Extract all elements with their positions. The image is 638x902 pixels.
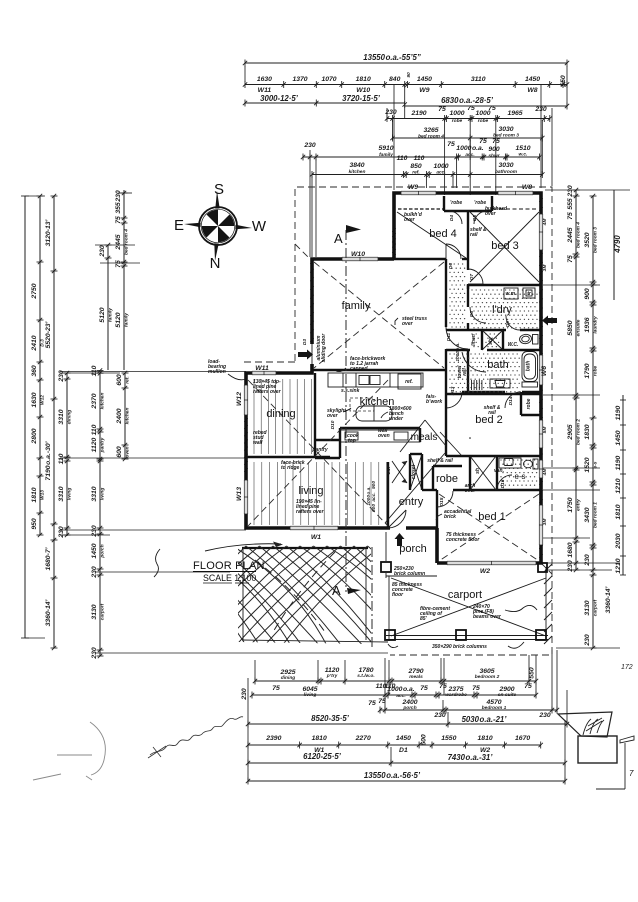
window labels near plan bbox=[236, 184, 548, 575]
black arrow marker porch bbox=[395, 533, 405, 546]
svg-text:bed room 2: bed room 2 bbox=[576, 419, 582, 445]
robe bed2 bbox=[526, 398, 532, 409]
svg-text:ref.: ref. bbox=[405, 379, 413, 385]
ceiling diagonals bed3 bbox=[470, 212, 539, 282]
svg-text:bath: bath bbox=[526, 361, 532, 372]
svg-text:S: S bbox=[214, 181, 224, 198]
svg-text:under: under bbox=[389, 416, 404, 422]
svg-text:1830: 1830 bbox=[584, 424, 591, 439]
door arc es bbox=[497, 475, 512, 490]
door arcs hall bbox=[446, 327, 468, 362]
robe bed1 bbox=[427, 458, 476, 494]
svg-text:closet: closet bbox=[411, 464, 417, 479]
roof hip dashes bbox=[295, 244, 552, 574]
robe cells bed4 bed3 bbox=[449, 200, 487, 224]
svg-text:13550 o.a.-56·5’: 13550 o.a.-56·5’ bbox=[364, 771, 421, 780]
svg-text:E: E bbox=[174, 217, 184, 234]
door arc bed3 D2 bbox=[468, 269, 483, 284]
corner sketch lines bbox=[596, 736, 634, 789]
svg-text:living: living bbox=[67, 488, 73, 501]
svg-text:shelf & rail: shelf & rail bbox=[427, 458, 453, 464]
svg-text:D13: D13 bbox=[450, 386, 456, 395]
dim top overall 13550 bbox=[243, 53, 569, 67]
svg-text:kitchen: kitchen bbox=[100, 393, 106, 410]
svg-text:3130: 3130 bbox=[91, 604, 98, 619]
note skylight over bbox=[327, 408, 351, 419]
corner sketch funnel bbox=[558, 712, 617, 763]
svg-text:75: 75 bbox=[467, 105, 475, 112]
svg-text:230: 230 bbox=[241, 688, 248, 701]
washing machine bbox=[504, 288, 518, 299]
svg-text:75: 75 bbox=[479, 138, 487, 145]
svg-text:1370: 1370 bbox=[292, 76, 307, 83]
kitchen sink note bbox=[341, 388, 360, 394]
door arc wc bbox=[505, 316, 520, 330]
svg-text:bed room 1: bed room 1 bbox=[593, 502, 599, 528]
svg-text:3360-14’: 3360-14’ bbox=[45, 599, 52, 626]
svg-text:3310: 3310 bbox=[58, 486, 65, 501]
shower es bbox=[470, 456, 496, 490]
svg-text:D3: D3 bbox=[302, 339, 308, 345]
dim left chain rooms bbox=[58, 370, 73, 539]
svg-text:1810: 1810 bbox=[312, 735, 327, 742]
svg-text:1520: 1520 bbox=[584, 457, 591, 472]
wall marker letters bbox=[542, 218, 548, 526]
svg-text:dining: dining bbox=[67, 410, 73, 424]
carport beams outline bbox=[385, 563, 548, 641]
svg-text:3310: 3310 bbox=[91, 486, 98, 501]
svg-text:W10: W10 bbox=[351, 251, 365, 258]
dim bottom rooms row bbox=[253, 667, 538, 690]
note aluminium sliding door bbox=[316, 333, 327, 363]
svg-text:85’: 85’ bbox=[420, 616, 428, 622]
wall exterior outline bbox=[246, 193, 541, 563]
note face-brickwork kitchen bbox=[336, 356, 386, 372]
dim left leader lines bbox=[60, 193, 388, 653]
svg-text:meals: meals bbox=[409, 674, 423, 680]
svg-text:shwr: shwr bbox=[488, 153, 500, 159]
svg-text:75: 75 bbox=[438, 106, 446, 113]
svg-text:3030: 3030 bbox=[498, 162, 513, 169]
svg-text:SCALE 1:100: SCALE 1:100 bbox=[203, 573, 256, 583]
svg-text:oven: oven bbox=[126, 446, 131, 457]
svg-text:A: A bbox=[332, 583, 341, 598]
svg-text:top: top bbox=[348, 438, 356, 444]
svg-text:1450: 1450 bbox=[525, 76, 540, 83]
svg-text:1450: 1450 bbox=[396, 735, 411, 742]
svg-text:7430 o.a.-31’: 7430 o.a.-31’ bbox=[448, 753, 494, 762]
svg-text:110: 110 bbox=[397, 155, 408, 162]
dim bottom subtotal row bbox=[246, 714, 569, 728]
svg-text:75: 75 bbox=[368, 700, 376, 707]
svg-text:230: 230 bbox=[115, 190, 122, 203]
svg-text:13550 o.a.-55’5”: 13550 o.a.-55’5” bbox=[363, 53, 421, 62]
svg-text:2800: 2800 bbox=[31, 428, 38, 444]
svg-text:oven: oven bbox=[378, 433, 390, 439]
svg-text:porch: porch bbox=[100, 544, 106, 558]
svg-text:3110: 3110 bbox=[471, 76, 486, 83]
svg-text:shr: shr bbox=[488, 336, 494, 345]
ceiling diagonals family bbox=[314, 262, 444, 368]
ceiling diagonals bed1 bbox=[439, 494, 539, 561]
dim left chain bedroom4 bbox=[115, 190, 130, 370]
paving leader arrow bbox=[154, 542, 283, 578]
black arrow marker right wall bbox=[542, 316, 557, 326]
svg-text:pantry: pantry bbox=[311, 447, 328, 453]
note shelf rail bed3 bbox=[470, 227, 487, 238]
svg-text:2370: 2370 bbox=[91, 393, 98, 409]
svg-text:4570: 4570 bbox=[485, 699, 501, 706]
window W9 bbox=[401, 191, 436, 195]
pencil marks bbox=[33, 722, 105, 780]
svg-text:porch: porch bbox=[402, 705, 416, 711]
floorboards dining bbox=[254, 379, 312, 454]
svg-text:5120: 5120 bbox=[115, 312, 122, 327]
room label bed 2 bbox=[475, 414, 503, 426]
svg-text:s.t./w.o.: s.t./w.o. bbox=[357, 673, 374, 679]
porch floor note bbox=[392, 582, 422, 598]
dim top bedrooms row bbox=[390, 126, 544, 142]
room label living bbox=[298, 485, 323, 497]
svg-text:1450: 1450 bbox=[615, 430, 622, 445]
note 1800x600 bench bbox=[381, 406, 412, 422]
svg-text:230: 230 bbox=[433, 712, 446, 719]
svg-text:b’work: b’work bbox=[426, 399, 442, 405]
svg-text:75: 75 bbox=[115, 216, 122, 224]
svg-text:entry: entry bbox=[576, 499, 582, 511]
svg-text:75: 75 bbox=[420, 685, 428, 692]
svg-text:1070: 1070 bbox=[321, 76, 336, 83]
svg-text:bedroom 2: bedroom 2 bbox=[475, 674, 500, 680]
svg-text:75: 75 bbox=[472, 685, 480, 692]
svg-text:5910: 5910 bbox=[378, 145, 393, 152]
compass rose bbox=[184, 191, 252, 261]
svg-text:230: 230 bbox=[538, 712, 551, 719]
dim top kitchen row bbox=[310, 155, 545, 178]
skylight dashed bbox=[350, 398, 374, 411]
es toilet bbox=[524, 459, 539, 469]
dim top family row bbox=[301, 138, 542, 161]
svg-text:W8: W8 bbox=[527, 87, 537, 94]
svg-text:bath: bath bbox=[487, 359, 508, 371]
room label porch bbox=[399, 543, 427, 555]
svg-text:550: 550 bbox=[560, 75, 567, 87]
svg-text:3265: 3265 bbox=[423, 127, 438, 134]
closet entry bbox=[410, 454, 422, 490]
svg-text:110: 110 bbox=[58, 453, 65, 464]
note rebated stud wall bbox=[253, 430, 268, 446]
svg-text:w.m.: w.m. bbox=[506, 291, 517, 297]
svg-text:to ridge: to ridge bbox=[281, 465, 300, 471]
note bulkhead bed4 bbox=[404, 212, 423, 223]
svg-text:D14: D14 bbox=[508, 396, 514, 405]
kitchen south bench bbox=[340, 430, 420, 442]
note face-brickwork meals bbox=[426, 394, 442, 405]
svg-text:355: 355 bbox=[115, 202, 122, 214]
door gap D3 bbox=[309, 344, 315, 364]
svg-text:8520-35·5’: 8520-35·5’ bbox=[311, 714, 350, 723]
svg-text:over: over bbox=[327, 413, 339, 419]
room label bed 1 bbox=[478, 511, 506, 523]
svg-text:D1: D1 bbox=[399, 747, 408, 754]
black arrow marker west D3 bbox=[298, 339, 313, 360]
floorboards living bbox=[254, 462, 387, 525]
room label family bbox=[342, 300, 371, 312]
svg-text:7190 o.a.-30’: 7190 o.a.-30’ bbox=[45, 441, 52, 480]
wc toilet bbox=[508, 334, 538, 348]
dim bottom left 230 bbox=[241, 688, 248, 701]
window W8 bbox=[498, 191, 533, 195]
svg-text:75: 75 bbox=[567, 212, 574, 220]
dim right chain rooms bbox=[567, 185, 582, 573]
svg-text:1810: 1810 bbox=[356, 76, 371, 83]
window right bed1 W3 bbox=[539, 505, 543, 545]
svg-text:W: W bbox=[252, 218, 267, 235]
window W10 bbox=[342, 257, 378, 261]
svg-text:mullion: mullion bbox=[208, 369, 226, 375]
shower bath bbox=[482, 330, 503, 350]
svg-text:bed room 4: bed room 4 bbox=[576, 222, 582, 248]
linen shelves bbox=[472, 380, 482, 390]
roof eave hatch right bbox=[544, 564, 552, 644]
dim left chain outer bbox=[31, 194, 46, 537]
window W1 bbox=[290, 526, 338, 530]
svg-text:dining: dining bbox=[281, 675, 295, 681]
svg-text:230: 230 bbox=[58, 526, 65, 539]
svg-text:concrete floor: concrete floor bbox=[446, 537, 480, 543]
svg-text:1630: 1630 bbox=[31, 392, 38, 407]
svg-text:kitchen: kitchen bbox=[349, 169, 366, 175]
dim left chain kitchen detail bbox=[116, 371, 131, 461]
svg-text:D17: D17 bbox=[386, 465, 392, 474]
svg-text:ensuite: ensuite bbox=[576, 319, 582, 336]
interior walls bbox=[246, 196, 541, 563]
window right bed3 bbox=[539, 214, 543, 250]
dim bottom subtotal row 2 bbox=[246, 752, 567, 767]
svg-text:1190: 1190 bbox=[615, 455, 622, 470]
door arc bed2 west bbox=[446, 392, 471, 439]
door D13 bbox=[450, 386, 456, 395]
svg-text:D8: D8 bbox=[469, 311, 475, 317]
door arc bed4 D6 bbox=[446, 244, 461, 269]
svg-text:capped: capped bbox=[350, 366, 368, 372]
dim bottom windows row bbox=[246, 734, 543, 754]
svg-text:110: 110 bbox=[91, 365, 98, 376]
robe door labels bbox=[449, 215, 478, 221]
svg-text:950: 950 bbox=[31, 518, 38, 530]
svg-text:2190: 2190 bbox=[410, 110, 426, 117]
svg-text:bed 3: bed 3 bbox=[491, 240, 519, 252]
svg-text:3360-14’: 3360-14’ bbox=[605, 586, 612, 613]
carport diagonals bbox=[391, 578, 546, 636]
svg-text:75: 75 bbox=[272, 685, 280, 692]
svg-text:75: 75 bbox=[439, 683, 447, 690]
ceiling diagonal bed4 bbox=[397, 212, 466, 258]
svg-text:D5: D5 bbox=[472, 215, 478, 221]
svg-text:110: 110 bbox=[91, 424, 98, 435]
signature bbox=[148, 717, 243, 758]
svg-text:rafters over: rafters over bbox=[296, 509, 325, 515]
dim right subtotal 3360 bbox=[605, 586, 612, 613]
svg-text:850: 850 bbox=[410, 163, 422, 170]
svg-text:110: 110 bbox=[414, 155, 425, 162]
dim right chain detail bbox=[584, 194, 599, 650]
door arc ldry bbox=[469, 307, 486, 323]
shelf rail notes bed2 bbox=[484, 405, 501, 416]
svg-text:350×290 brick columns: 350×290 brick columns bbox=[432, 644, 487, 650]
svg-text:550: 550 bbox=[529, 667, 536, 679]
svg-text:dining: dining bbox=[266, 408, 295, 420]
svg-text:230: 230 bbox=[91, 525, 98, 538]
svg-text:1000 o.a.: 1000 o.a. bbox=[366, 486, 372, 505]
svg-text:bed room 3: bed room 3 bbox=[593, 227, 599, 253]
svg-text:robe: robe bbox=[452, 118, 463, 124]
svg-text:ref.: ref. bbox=[125, 376, 131, 383]
kitchen island bench bbox=[356, 406, 392, 421]
svg-text:7: 7 bbox=[629, 769, 634, 778]
svg-text:beams over: beams over bbox=[473, 614, 502, 620]
svg-text:172: 172 bbox=[621, 664, 633, 671]
svg-text:p’try: p’try bbox=[326, 673, 338, 679]
svg-text:1510: 1510 bbox=[515, 145, 530, 152]
svg-text:family: family bbox=[124, 313, 130, 327]
svg-text:1000 o.a.: 1000 o.a. bbox=[387, 686, 415, 693]
svg-text:rail: rail bbox=[470, 232, 478, 238]
svg-text:1810: 1810 bbox=[478, 735, 493, 742]
room label bed 4 bbox=[429, 228, 457, 240]
svg-text:900: 900 bbox=[584, 288, 591, 300]
dim top leader lines bbox=[245, 66, 567, 257]
svg-text:2030: 2030 bbox=[615, 533, 622, 549]
window W13 bbox=[244, 480, 248, 514]
svg-text:3000-12·5’: 3000-12·5’ bbox=[260, 94, 299, 103]
dim top row windows bbox=[243, 72, 569, 94]
svg-text:2390: 2390 bbox=[265, 735, 281, 742]
svg-text:3840: 3840 bbox=[349, 162, 364, 169]
svg-text:robe: robe bbox=[593, 365, 599, 376]
sliding door D17 bbox=[386, 461, 407, 483]
svg-text:kitchen: kitchen bbox=[360, 396, 395, 408]
svg-text:600: 600 bbox=[116, 446, 123, 458]
svg-text:W10: W10 bbox=[356, 87, 370, 94]
paving hatch area bbox=[40, 546, 477, 646]
svg-text:w.c.: w.c. bbox=[519, 153, 528, 158]
svg-text:D16: D16 bbox=[500, 479, 506, 488]
svg-text:W.C.: W.C. bbox=[508, 342, 519, 348]
svg-text:’robe: ’robe bbox=[450, 200, 462, 206]
svg-text:1000: 1000 bbox=[449, 110, 464, 117]
note load-bearing mullion bbox=[208, 359, 246, 380]
room label dining bbox=[266, 408, 295, 420]
svg-text:W8: W8 bbox=[522, 184, 532, 191]
compass letters bbox=[174, 181, 267, 272]
room label carport bbox=[448, 589, 482, 601]
svg-text:W13: W13 bbox=[236, 487, 243, 501]
svg-text:75: 75 bbox=[567, 255, 574, 263]
svg-text:1210: 1210 bbox=[615, 478, 622, 493]
svg-text:1965: 1965 bbox=[507, 110, 522, 117]
pantry bbox=[311, 420, 336, 453]
svg-text:W12: W12 bbox=[40, 395, 46, 405]
dim top subtotals bbox=[243, 94, 569, 110]
note accadential brick bbox=[436, 509, 472, 520]
svg-text:laundry: laundry bbox=[593, 316, 599, 334]
svg-text:linen: linen bbox=[471, 334, 477, 346]
svg-text:230: 230 bbox=[58, 370, 65, 383]
svg-text:1680-7’: 1680-7’ bbox=[45, 547, 52, 570]
svg-text:bed room 4: bed room 4 bbox=[124, 229, 130, 255]
svg-text:family: family bbox=[342, 300, 371, 312]
svg-text:e-s: e-s bbox=[514, 472, 525, 481]
window right bed2 W5 bbox=[539, 420, 543, 448]
svg-text:230: 230 bbox=[584, 634, 591, 647]
svg-text:2445: 2445 bbox=[567, 227, 574, 243]
svg-text:kitchen: kitchen bbox=[125, 408, 131, 425]
svg-text:3605: 3605 bbox=[479, 668, 494, 675]
svg-text:3720-15·5’: 3720-15·5’ bbox=[342, 94, 381, 103]
svg-text:75: 75 bbox=[488, 105, 496, 112]
window W2 bbox=[447, 561, 536, 565]
svg-text:1000: 1000 bbox=[433, 163, 448, 170]
svg-text:W9: W9 bbox=[408, 184, 418, 191]
svg-text:3430: 3430 bbox=[584, 507, 591, 522]
svg-text:D7: D7 bbox=[469, 274, 475, 280]
svg-text:bed room 4: bed room 4 bbox=[418, 134, 444, 140]
carport ceiling note bbox=[420, 606, 450, 622]
svg-text:over: over bbox=[404, 217, 416, 223]
svg-text:sliding door: sliding door bbox=[321, 333, 327, 363]
svg-text:acc.: acc. bbox=[372, 492, 377, 501]
svg-text:robe: robe bbox=[478, 118, 489, 124]
svg-text:entry: entry bbox=[399, 496, 424, 508]
svg-text:W6: W6 bbox=[541, 366, 548, 376]
es vanity bbox=[494, 458, 521, 474]
svg-text:600: 600 bbox=[421, 734, 428, 746]
wall oven note bbox=[378, 428, 390, 439]
svg-text:600: 600 bbox=[116, 374, 123, 386]
dim right overall 4790 bbox=[613, 190, 622, 300]
svg-text:1630: 1630 bbox=[257, 76, 272, 83]
svg-text:1780: 1780 bbox=[358, 667, 373, 674]
svg-text:floor: floor bbox=[392, 592, 404, 598]
dim left chain kitchen-carport bbox=[91, 365, 106, 659]
svg-text:5520-23’: 5520-23’ bbox=[45, 321, 52, 348]
svg-text:360: 360 bbox=[31, 365, 38, 377]
svg-text:living: living bbox=[304, 692, 317, 698]
svg-text:W9: W9 bbox=[419, 87, 429, 94]
svg-text:2445: 2445 bbox=[115, 234, 122, 250]
svg-text:N: N bbox=[210, 255, 221, 272]
door arc bath bbox=[462, 352, 486, 372]
towel rail note bbox=[457, 365, 468, 378]
svg-text:230: 230 bbox=[303, 142, 316, 149]
svg-text:75: 75 bbox=[447, 141, 455, 148]
note rafters dining bbox=[253, 379, 282, 395]
svg-text:1000 o.a.: 1000 o.a. bbox=[455, 342, 461, 361]
cook top note bbox=[347, 433, 359, 444]
bath tub bbox=[522, 352, 538, 388]
svg-text:D4: D4 bbox=[449, 215, 455, 221]
svg-text:W2: W2 bbox=[480, 568, 490, 575]
svg-text:wardrobe: wardrobe bbox=[445, 692, 467, 698]
svg-text:van.: van. bbox=[494, 468, 504, 474]
note face-brick to ridge bbox=[281, 460, 305, 471]
svg-text:bathroom: bathroom bbox=[495, 169, 518, 175]
porch outline bbox=[381, 532, 437, 578]
svg-text:1810: 1810 bbox=[31, 487, 38, 502]
room label bed 3 bbox=[491, 240, 519, 252]
svg-text:1120: 1120 bbox=[325, 667, 340, 674]
